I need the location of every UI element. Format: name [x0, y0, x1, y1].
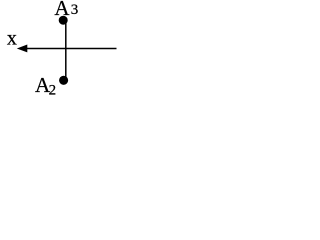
svg-text:3: 3 — [71, 2, 79, 18]
svg-text:2: 2 — [49, 83, 57, 99]
svg-text:x: x — [7, 28, 17, 50]
svg-text:A: A — [54, 0, 70, 20]
